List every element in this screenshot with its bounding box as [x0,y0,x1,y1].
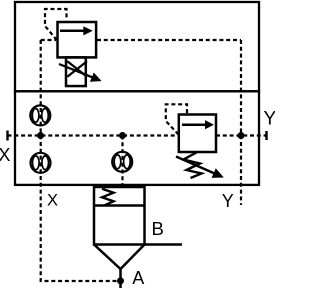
wire: pilot branch x=122.5 from gallery down to valve V3 [121,136,123,188]
valve V1 adjustment arrow [59,64,102,82]
node A junction dot [117,277,124,284]
valve V1 closed-position X symbol [67,61,87,77]
enclosure block 1 (top manifold housing) [15,2,259,91]
enclosure block 2 (lower manifold housing) [15,91,259,185]
valve V3 body (spring-loaded cartridge) [94,187,145,245]
valve V3 internal divider [94,204,145,207]
wire: valve V1 pilot loop (spring-side pilot) [45,9,67,40]
svg-text:Y: Y [264,109,276,130]
orifice O1 (circle with twin restriction) [30,105,50,125]
node: junction dot on X riser at gallery [37,132,44,139]
svg-text:A: A [132,268,144,288]
port tick Y (right pilot port) [265,131,267,140]
valve V1 main box (pressure reducing valve body) [58,22,97,57]
svg-text:X: X [47,192,58,210]
wire: port B line [145,243,183,245]
valve V3 poppet seat funnel [94,245,145,270]
valve V2 spring [184,153,202,179]
valve V3 spring [102,189,114,206]
wire: pilot branch horizontal y=40 from X riser to valve V1 left [41,39,56,41]
node: junction dot at branch to valve V3 [119,132,126,139]
wire: pilot line Y vertical x=241 from y=40 down to stub end y=205 [240,40,242,205]
wire: pilot line y=40 from valve V1 right to Y riser [97,39,241,41]
valve V2 box (proportional relief valve body) [179,115,216,153]
wire: main pilot gallery y=135.5 left segment (tick X to valve V2) [8,134,179,136]
wire: pilot line X vertical run x=40.7 down to bottom corner then to node A [41,40,118,281]
valve V1 flow arrow [60,26,93,35]
valve V2 flow arrow [182,120,214,129]
wire: valve V2 pilot loop [166,104,187,134]
orifice O3 (circle with twin restriction) [112,152,132,172]
svg-text:B: B [152,218,164,239]
port tick X (left pilot port) [6,131,8,141]
valve V1 lower position box [66,57,86,86]
wire: port A line [119,268,122,288]
wire: main pilot gallery y=135.5 right segment (valve V2 to tick Y) [216,134,267,136]
svg-text:X: X [0,145,10,165]
svg-text:Y: Y [222,191,234,211]
valve V2 proportional adjustment arrow [176,157,224,178]
node: junction dot on Y riser at gallery [238,132,245,139]
orifice O2 (circle with twin restriction) [31,153,51,173]
